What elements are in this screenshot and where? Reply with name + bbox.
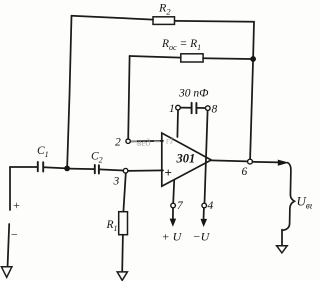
wire node3 down to R1 bbox=[123, 173, 125, 212]
wire left terminal upper bbox=[9, 167, 11, 210]
pin 7 terminal bbox=[171, 203, 176, 208]
wire pin1 stub bbox=[180, 107, 191, 109]
svg-text:4: 4 bbox=[208, 200, 214, 212]
pin 8 terminal bbox=[206, 106, 211, 111]
resistor R2 bbox=[153, 17, 175, 25]
svg-text:30 пФ: 30 пФ bbox=[178, 88, 208, 100]
svg-text:+ U: + U bbox=[162, 230, 183, 244]
svg-text:гЈ: гЈ bbox=[166, 136, 174, 146]
arrowhead -U bbox=[201, 219, 208, 227]
op-amp U1 301 bbox=[162, 133, 211, 186]
wire C2 to node 3 bbox=[99, 169, 123, 170]
wire R1 to ground bbox=[121, 235, 124, 272]
svg-text:+: + bbox=[165, 165, 172, 180]
wire left terminal lower bbox=[8, 224, 10, 266]
node 6 terminal bbox=[248, 159, 253, 164]
junction C1-feedback bbox=[64, 166, 70, 172]
junction Roc-feedback bbox=[250, 56, 256, 62]
wire pin8 down through op-amp to pin4 bbox=[205, 111, 208, 204]
wire pin2 to op-amp bbox=[130, 140, 163, 143]
wire top horizontal to R2 bbox=[72, 16, 154, 20]
wire node3 to op-amp bbox=[128, 169, 163, 172]
wire cap to pin8 bbox=[197, 107, 205, 109]
wire R2 to right corner bbox=[175, 20, 254, 23]
wire node6 to output arrow bbox=[253, 161, 280, 164]
capacitor C1 bbox=[38, 162, 43, 172]
svg-text:−U: −U bbox=[193, 230, 211, 244]
wire pin2 vertical bbox=[128, 56, 129, 139]
resistor R1 bbox=[119, 212, 128, 235]
ground left bbox=[1, 267, 12, 278]
svg-text:1: 1 bbox=[169, 103, 175, 115]
svg-text:−: − bbox=[11, 228, 18, 242]
wire +U arrow shaft bbox=[172, 208, 174, 220]
wire -U arrow shaft bbox=[203, 208, 205, 220]
resistor Roc bbox=[181, 54, 203, 62]
wire junction to C2 bbox=[70, 168, 95, 171]
wire Roc to junction bbox=[203, 57, 250, 60]
svg-text:Rос = R1: Rос = R1 bbox=[161, 38, 201, 52]
wire right vertical feedback bbox=[250, 22, 254, 159]
watermark scan artifact bbox=[131, 136, 174, 150]
svg-text:6: 6 bbox=[242, 166, 248, 178]
ground right bbox=[277, 246, 288, 253]
capacitor 30pF bbox=[192, 103, 197, 114]
svg-text:301: 301 bbox=[176, 152, 196, 166]
wire op-amp output bbox=[211, 160, 247, 161]
wire top-left vertical bbox=[67, 16, 71, 166]
node 3 terminal bbox=[123, 168, 128, 173]
wire pin1 down into op-amp bbox=[176, 110, 179, 137]
arrowhead +U bbox=[170, 219, 177, 227]
pin 1 terminal bbox=[176, 105, 181, 110]
svg-text:вед: вед bbox=[137, 138, 151, 149]
wire Roc left segment bbox=[130, 56, 181, 58]
svg-text:3: 3 bbox=[113, 176, 120, 188]
wire C1 to junction bbox=[44, 167, 65, 168]
svg-text:8: 8 bbox=[212, 104, 218, 116]
pin 2 terminal bbox=[126, 139, 130, 143]
capacitor C2 bbox=[95, 165, 99, 174]
wire output to ground bbox=[281, 230, 283, 246]
svg-text:2: 2 bbox=[115, 137, 121, 149]
svg-text:+: + bbox=[13, 198, 20, 212]
wire input left to C1 bbox=[10, 166, 37, 168]
pin 4 terminal bbox=[202, 203, 207, 208]
arrowhead output bbox=[278, 160, 289, 166]
brace Uout bbox=[283, 163, 295, 231]
wire pin7 from op-amp bbox=[173, 181, 174, 204]
ground under R1 bbox=[117, 272, 127, 281]
